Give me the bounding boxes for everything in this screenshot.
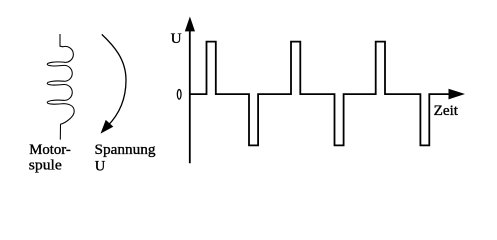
svg-text:U: U	[95, 158, 106, 174]
svg-text:Spannung: Spannung	[95, 142, 156, 158]
waveform and x-axis	[190, 42, 450, 146]
svg-text:spule: spule	[29, 157, 62, 173]
y-axis U	[189, 28, 191, 163]
curved arrow Spannung U	[101, 34, 126, 132]
svg-text:U: U	[171, 30, 182, 47]
svg-text:Motor-: Motor-	[29, 142, 71, 158]
svg-text:Zeit: Zeit	[434, 103, 458, 119]
inductor L1 Motorspule	[47, 34, 74, 140]
axis label 0	[177, 90, 181, 100]
x-axis arrowhead Zeit	[449, 89, 466, 100]
